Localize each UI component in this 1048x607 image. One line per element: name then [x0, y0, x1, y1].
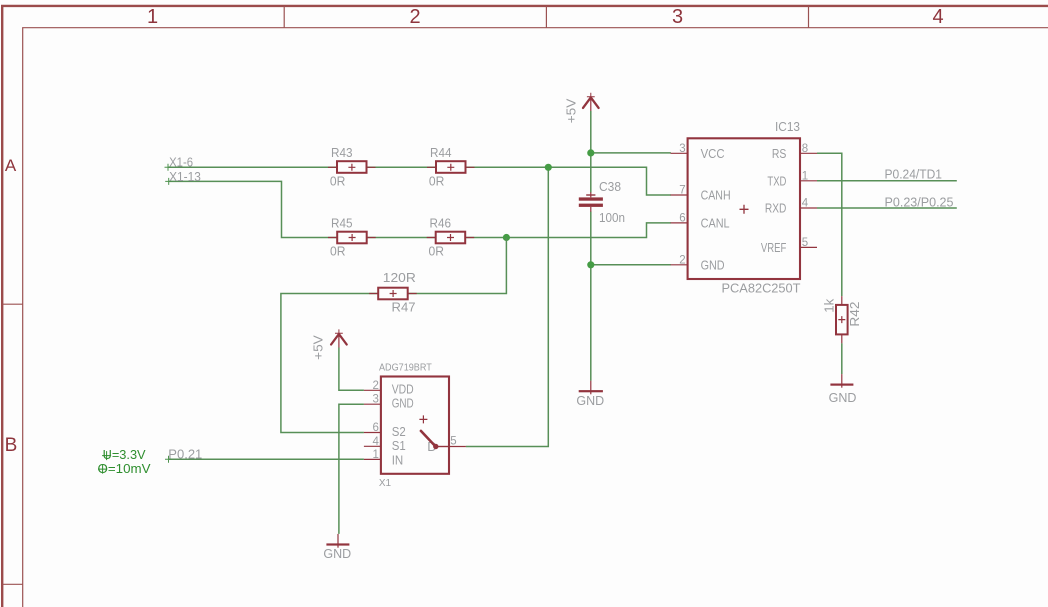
wire net R42 to GND: [841, 343, 843, 374]
svg-text:2: 2: [679, 254, 685, 266]
svg-text:100n: 100n: [599, 210, 625, 225]
frame column divider 1|2: [283, 6, 285, 28]
svg-text:2: 2: [409, 6, 420, 28]
svg-text:1k: 1k: [822, 298, 837, 313]
svg-text:GND: GND: [829, 391, 857, 405]
frame row divider A|B: [2, 303, 23, 305]
svg-text:R47: R47: [392, 300, 416, 315]
svg-text:ADG719BRT: ADG719BRT: [379, 362, 432, 373]
svg-text:0R: 0R: [429, 173, 445, 188]
svg-text:C38: C38: [599, 179, 621, 194]
svg-text:1: 1: [372, 449, 378, 461]
svg-text:A: A: [5, 156, 17, 175]
svg-text:1: 1: [147, 6, 158, 28]
svg-text:VCC: VCC: [701, 146, 725, 161]
svg-text:2: 2: [372, 380, 378, 392]
svg-text:IN: IN: [392, 453, 404, 468]
op-amp / transceiver IC13 PCA82C250T: [688, 119, 801, 295]
wire net X1-6 vertical to switch D output: [466, 167, 548, 446]
attribute text U=3.3V: [102, 447, 146, 462]
resistor R46: [427, 215, 475, 258]
svg-text:P0.23/P0.25: P0.23/P0.25: [885, 194, 954, 209]
svg-text:CANL: CANL: [701, 215, 730, 230]
wire net R47 to switch S2: [281, 238, 507, 433]
IC13 pin 8 RS: [772, 143, 817, 161]
svg-text:0R: 0R: [330, 244, 346, 259]
IC13 pin 7 CANH: [671, 185, 731, 203]
wire net RS to R42: [817, 153, 842, 296]
svg-text:R44: R44: [430, 145, 452, 160]
node junction X1-13 / R47: [503, 234, 510, 241]
svg-text:4: 4: [932, 6, 943, 28]
svg-text:VREF: VREF: [761, 240, 787, 255]
svg-text:GND: GND: [576, 394, 604, 408]
node junction GND pin2 / C38: [587, 261, 594, 268]
capacitor C38: [579, 179, 625, 225]
svg-text:3: 3: [679, 143, 685, 155]
svg-text:O=10mV: O=10mV: [98, 461, 151, 476]
svg-text:0R: 0R: [429, 244, 445, 259]
ground symbol under R42: [829, 374, 857, 405]
svg-text:5: 5: [450, 435, 456, 447]
svg-text:X1-13: X1-13: [169, 169, 201, 184]
svg-text:GND: GND: [701, 257, 725, 272]
analog switch X1 ADG719BRT: [379, 362, 449, 489]
svg-text:8: 8: [802, 143, 808, 155]
svg-text:+5V: +5V: [564, 98, 578, 123]
svg-text:3: 3: [672, 6, 683, 28]
svg-text:P0.24/TD1: P0.24/TD1: [885, 167, 943, 182]
svg-text:6: 6: [679, 212, 685, 224]
resistor R47: [369, 270, 417, 314]
svg-text:4: 4: [802, 198, 809, 210]
svg-text:IC13: IC13: [775, 119, 800, 134]
svg-text:GND: GND: [323, 547, 351, 561]
attribute text O=10mV: [98, 461, 151, 476]
svg-text:5: 5: [802, 237, 808, 249]
svg-text:P0.21: P0.21: [168, 446, 202, 461]
wire net RXD / P0.23: [817, 207, 957, 209]
node junction X1-6 / switch: [545, 164, 552, 171]
X1 pin 3 GND: [364, 394, 414, 411]
wire net P0.21 to IN: [169, 458, 364, 460]
svg-text:VDD: VDD: [392, 382, 414, 397]
svg-text:X1: X1: [379, 478, 392, 489]
IC13 pin 1 TXD: [767, 170, 817, 188]
svg-text:0R: 0R: [330, 173, 346, 188]
resistor R43: [328, 145, 376, 188]
svg-text:1: 1: [802, 170, 808, 182]
wire net +5V to VCC and C38: [591, 111, 671, 193]
frame column divider 3|4: [808, 6, 810, 28]
svg-text:GND: GND: [392, 396, 414, 411]
svg-text:4: 4: [372, 436, 379, 448]
node junction +5V / VCC: [587, 149, 594, 156]
svg-text:R42: R42: [847, 302, 862, 327]
IC13 pin 4 RXD: [765, 198, 817, 216]
svg-text:U=3.3V: U=3.3V: [103, 447, 146, 462]
IC13 pin 2 GND: [671, 254, 725, 272]
net label P0.21: [165, 446, 202, 462]
wire net C38 bottom to GND: [591, 212, 671, 381]
svg-text:PCA82C250T: PCA82C250T: [722, 281, 801, 296]
svg-text:S1: S1: [392, 438, 406, 453]
svg-text:7: 7: [679, 185, 685, 197]
X1 pin 4 S1: [364, 436, 406, 453]
svg-text:TXD: TXD: [767, 173, 786, 188]
wire net +5V2 to VDD: [339, 348, 364, 391]
net label X1-6: [165, 155, 194, 171]
resistor R44: [427, 145, 475, 188]
svg-text:R45: R45: [331, 215, 353, 230]
svg-text:B: B: [5, 435, 18, 456]
frame column divider 2|3: [545, 6, 547, 28]
svg-text:120R: 120R: [383, 270, 416, 285]
svg-text:6: 6: [372, 422, 378, 434]
supply +5V symbol 1: [564, 93, 598, 124]
supply +5V symbol 2: [311, 329, 346, 360]
IC13 pin 6 CANL: [671, 212, 730, 230]
X1 pin 6 S2: [364, 422, 406, 439]
X1 pin 5 D output with switch lever: [421, 431, 466, 454]
net label X1-13: [165, 169, 201, 185]
wire net X1-6 horizontal to CANH: [168, 167, 671, 195]
svg-text:X1-6: X1-6: [169, 155, 193, 170]
resistor R42: [822, 296, 862, 343]
X1 pin 1 IN: [364, 449, 403, 468]
X1 pin 2 VDD: [364, 380, 414, 397]
frame row divider bottom: [2, 583, 23, 585]
resistor R45: [328, 215, 376, 258]
IC13 pin 3 VCC: [671, 143, 725, 161]
svg-text:R46: R46: [430, 215, 452, 230]
wire net TXD / P0.24: [817, 180, 957, 182]
IC13 pin 5 VREF: [761, 237, 817, 255]
wire net X1-13 to CANL: [169, 181, 671, 237]
svg-text:RXD: RXD: [765, 201, 787, 216]
svg-text:CANH: CANH: [701, 188, 731, 203]
svg-text:3: 3: [372, 394, 378, 406]
wire net ADG GND pin to GND symbol: [339, 404, 364, 534]
svg-text:RS: RS: [772, 146, 787, 161]
svg-text:R43: R43: [331, 145, 353, 160]
ground symbol under C38: [576, 381, 604, 408]
svg-text:+5V: +5V: [311, 334, 325, 359]
ground symbol under ADG719: [323, 534, 351, 561]
